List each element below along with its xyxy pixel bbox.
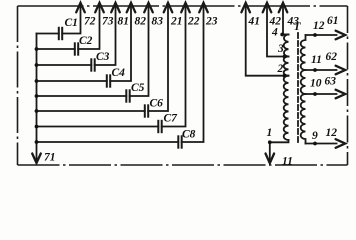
junction primary tap 3 [283,55,287,59]
transformer T primary winding [284,35,289,141]
junction on bus at C6 row [35,109,39,113]
svg-text:9: 9 [312,130,318,142]
terminal arrow 83 (up) [144,3,153,13]
svg-text:21: 21 [170,16,183,28]
wire bus to C2 [37,48,75,50]
terminal arrow 42 (up) [263,3,272,13]
wire tap 4 to winding top [282,34,289,36]
junction secondary pin 10 [313,92,317,96]
wire bus to C8 [37,141,179,143]
svg-text:12: 12 [313,20,325,32]
transformer T secondary winding [301,35,306,144]
enclosure frame left (dash-dot) [17,6,19,165]
svg-text:63: 63 [325,76,337,88]
terminal arrow 73 (up) [95,3,104,13]
svg-text:11: 11 [311,54,322,66]
svg-text:T: T [294,21,302,33]
wire terminal 42 to transformer tap [267,6,289,57]
wire bus to C1 [37,33,59,35]
wire bus to C5 [37,95,127,97]
wire C1 to terminal 72 [62,6,80,34]
junction on bus at C8 row [35,140,39,144]
junction on bus at C3 row [35,63,39,67]
wire C5 to terminal 83 [130,6,149,97]
svg-text:C3: C3 [96,51,110,63]
svg-text:73: 73 [102,16,114,28]
junction primary tap 2 [283,74,287,78]
svg-text:C5: C5 [131,82,145,94]
wire bus to C4 [37,80,107,82]
wire secondary pin 11 to terminal 62 [306,69,337,71]
terminal arrow 72 (up) [76,3,85,13]
svg-text:62: 62 [326,51,338,63]
svg-text:11: 11 [282,156,293,168]
terminal arrow 63 (right) [336,90,346,99]
wire bus to C6 [37,110,145,112]
terminal arrow 82 (up) [127,3,136,13]
svg-text:71: 71 [44,152,56,164]
terminal arrow 12 (right) [336,139,346,148]
junction on bus at C4 row [35,79,39,83]
capacitor C2 [75,42,78,55]
svg-text:10: 10 [310,78,322,90]
svg-text:41: 41 [248,16,261,28]
svg-text:81: 81 [118,16,130,28]
svg-text:C2: C2 [79,35,93,47]
capacitor C3 [91,58,94,71]
svg-text:82: 82 [135,16,147,28]
enclosure frame top (dash-dot) [18,5,348,7]
svg-text:4: 4 [271,27,278,39]
capacitor C8 [178,135,181,148]
capacitor C6 [145,104,148,117]
wire C2 to terminal 73 [78,6,99,50]
junction secondary pin 12 [313,33,317,37]
capacitor C5 [126,89,129,102]
svg-text:C7: C7 [164,113,179,125]
wire bus to C7 [37,126,159,128]
svg-text:22: 22 [187,16,200,28]
terminal arrow 62 (right) [336,66,346,75]
svg-text:1: 1 [267,127,273,139]
junction pin 1 [268,140,272,144]
junction secondary pin 9 [313,142,317,146]
svg-text:23: 23 [205,16,218,28]
svg-text:C1: C1 [65,17,78,29]
transformer core [297,33,299,143]
wire C3 to terminal 81 [95,6,116,66]
svg-text:83: 83 [152,16,164,28]
svg-text:72: 72 [84,16,96,28]
terminal arrow 71 (down) [32,154,41,164]
terminal arrow 23 (up) [199,3,208,13]
wire C4 to terminal 82 [110,6,131,82]
wire C6 to terminal 21 [148,6,168,112]
wire bus to C3 [37,64,92,66]
svg-text:C6: C6 [150,98,164,110]
svg-text:3: 3 [277,43,284,55]
wire terminal 41 to transformer tap [246,6,289,76]
wire secondary pin 12 to terminal 61 [306,34,337,36]
terminal arrow 61 (right) [336,31,346,40]
wire left bus (node 71) [36,34,38,162]
junction on bus at C5 row [35,94,39,98]
junction on bus at C7 row [35,125,39,129]
terminal arrow 11 (down) [266,154,275,164]
enclosure frame bottom (dash-dot) [18,164,348,166]
enclosure frame right (dash-dot) [347,6,349,165]
svg-text:61: 61 [327,15,339,27]
svg-text:C4: C4 [112,67,126,79]
terminal arrow 41 (up) [241,3,250,13]
wire C7 to terminal 22 [162,6,186,127]
junction primary tap 4 [280,33,284,37]
wire C8 to terminal 23 [182,6,204,143]
terminal arrow 43 (up) [279,3,288,13]
capacitor C7 [158,120,161,133]
wire terminal 43 to transformer tap [283,6,289,35]
wire secondary pin 10 to terminal 63 [306,93,337,95]
capacitor C4 [107,74,110,87]
svg-text:12: 12 [326,127,338,139]
svg-text:C8: C8 [182,129,196,141]
terminal arrow 81 (up) [111,3,120,13]
capacitor C1 [59,27,62,40]
junction on bus at C2 row [35,47,39,51]
terminal arrow 21 (up) [164,3,173,13]
wire primary bottom (pin 1) to terminal 11 [270,140,289,162]
terminal arrow 22 (up) [181,3,190,13]
svg-text:2: 2 [277,63,284,75]
wire secondary pin 9 to terminal 12 [306,143,337,145]
junction secondary pin 11 [313,68,317,72]
